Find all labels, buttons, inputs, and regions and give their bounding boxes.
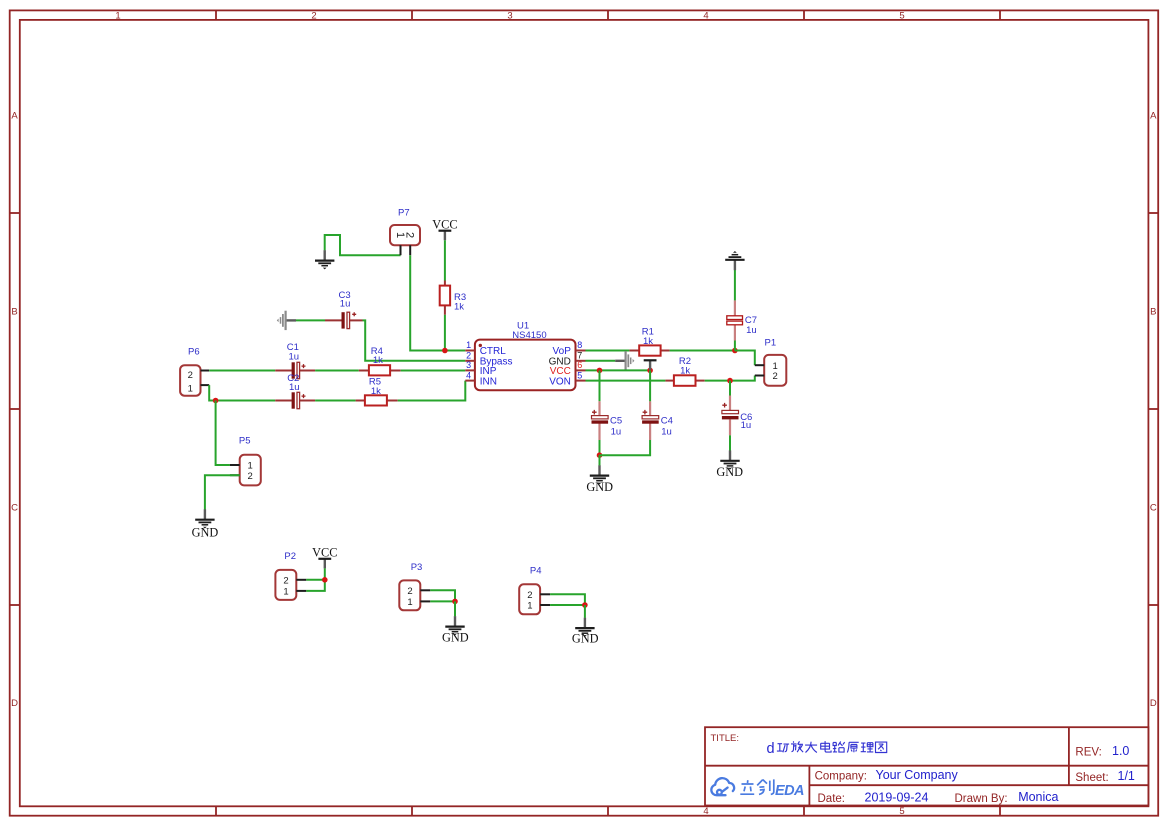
svg-text:5: 5 xyxy=(899,10,904,21)
svg-text:1k: 1k xyxy=(643,336,653,347)
svg-text:1u: 1u xyxy=(746,325,757,336)
capacitor C3 xyxy=(325,290,363,329)
wire U1 GND pin to ground flag xyxy=(586,360,616,362)
capacitor C2 xyxy=(275,373,315,409)
wire P3 pin2 to pin1 node xyxy=(430,590,455,601)
svg-text:1k: 1k xyxy=(373,355,383,366)
svg-text:5: 5 xyxy=(577,370,582,380)
wire P2 pin2 xyxy=(306,579,325,581)
svg-text:4: 4 xyxy=(466,370,471,380)
svg-text:P2: P2 xyxy=(284,551,296,562)
node C5 junction xyxy=(597,368,603,374)
wire R4 to U1 INP xyxy=(401,370,466,372)
svg-text:Date:: Date: xyxy=(818,793,846,805)
resistor R2 xyxy=(665,356,704,386)
wire U1 VON to R2 xyxy=(586,380,666,382)
resistor R5 xyxy=(356,377,398,406)
svg-text:1.0: 1.0 xyxy=(1112,744,1129,758)
title block outline xyxy=(705,727,1148,805)
VCC netflag at R3 xyxy=(432,217,457,240)
wire C3 left xyxy=(296,319,325,321)
frame right row letters xyxy=(1150,111,1157,710)
svg-text:1/1: 1/1 xyxy=(1118,769,1135,783)
svg-text:Company:: Company: xyxy=(815,771,867,783)
connector P4 xyxy=(519,566,550,615)
connector P1 xyxy=(755,338,787,386)
svg-text:A: A xyxy=(1150,111,1157,122)
svg-text:5: 5 xyxy=(899,806,904,817)
wire R5 to U1 INN xyxy=(398,381,466,401)
connector P3 xyxy=(399,562,430,610)
svg-text:3: 3 xyxy=(466,360,471,370)
svg-text:2: 2 xyxy=(311,10,316,21)
原 xyxy=(847,742,858,752)
svg-text:GND: GND xyxy=(586,480,613,494)
wire R3 to CTRL node xyxy=(444,315,446,351)
U1 pin 2 Bypass xyxy=(465,360,475,362)
U1 pin 8 VoP xyxy=(576,350,586,352)
U1 pin 3 INP xyxy=(465,369,475,371)
svg-text:d: d xyxy=(767,741,775,757)
node P5 branch junction xyxy=(213,398,219,404)
U1 pin 7 GND xyxy=(576,360,586,362)
svg-text:2: 2 xyxy=(466,351,471,361)
wire R2 to P1 pin2 xyxy=(705,376,755,381)
wire node to P1 pin1 xyxy=(735,351,755,366)
svg-text:1k: 1k xyxy=(454,302,464,313)
wire junction to P5 pin1 xyxy=(216,401,230,466)
svg-text:P6: P6 xyxy=(188,347,200,358)
svg-text:7: 7 xyxy=(577,351,582,361)
svg-text:P7: P7 xyxy=(398,208,410,219)
路 xyxy=(833,743,837,752)
图 xyxy=(876,742,887,752)
svg-text:1: 1 xyxy=(407,597,412,608)
svg-text:VCC: VCC xyxy=(312,545,337,559)
resistor R1 xyxy=(629,327,669,356)
connector P5 xyxy=(230,436,261,486)
svg-text:1: 1 xyxy=(283,587,288,598)
svg-text:GND: GND xyxy=(572,631,599,645)
wire P4 node down xyxy=(584,605,586,618)
svg-text:4: 4 xyxy=(703,806,708,817)
svg-text:1u: 1u xyxy=(741,420,752,431)
wire ground node to C4 xyxy=(600,440,651,455)
svg-text:1: 1 xyxy=(527,601,532,612)
ground flag rotated right at U1 pin7 xyxy=(615,351,634,370)
wire C4 node up xyxy=(649,370,651,401)
svg-text:1k: 1k xyxy=(371,386,381,397)
wire P6 pin2 to C1 xyxy=(209,370,275,372)
node C5-C4 ground junction xyxy=(597,452,603,458)
svg-text:P5: P5 xyxy=(239,436,251,447)
wire C3 to U1 Bypass xyxy=(363,320,466,360)
wire P5 pin2 to ground xyxy=(205,475,240,509)
svg-text:1u: 1u xyxy=(289,351,300,362)
svg-text:4: 4 xyxy=(703,10,708,21)
U1 pin 5 VON xyxy=(576,380,586,382)
wire VCC to P2 pins xyxy=(306,568,325,591)
title block logo cell divider xyxy=(808,766,810,806)
svg-text:1: 1 xyxy=(466,340,471,350)
wire C5 node to ground stub xyxy=(599,455,601,465)
svg-text:C4: C4 xyxy=(661,415,673,426)
svg-text:C: C xyxy=(1150,503,1157,514)
wire U1 VoP to R1 xyxy=(586,350,630,352)
svg-text:A: A xyxy=(11,111,18,122)
wire VCC to R3 xyxy=(444,240,446,280)
svg-text:P3: P3 xyxy=(411,562,423,573)
wire P7 pin1 to ground xyxy=(325,235,401,255)
title text: d功放大电路原理图 (stroke approximation) xyxy=(767,741,887,757)
svg-text:VCC: VCC xyxy=(432,217,457,231)
svg-text:2: 2 xyxy=(283,576,288,587)
resistor R3 xyxy=(440,281,466,315)
op-amp U1 NS4150 xyxy=(465,321,585,391)
title block rev column divider xyxy=(1068,727,1070,785)
svg-text:2: 2 xyxy=(188,370,193,381)
frame top column numbers xyxy=(115,10,904,21)
svg-text:1u: 1u xyxy=(289,382,300,393)
frame top column ticks xyxy=(216,10,1000,20)
svg-text:P1: P1 xyxy=(765,338,777,349)
wire C7 to top ground xyxy=(734,270,736,300)
node P2 junction xyxy=(322,577,328,583)
svg-text:D: D xyxy=(1150,698,1157,709)
功 xyxy=(777,744,783,751)
U1 pin 4 INN xyxy=(465,380,475,382)
connector P6 xyxy=(180,347,209,396)
node P4 junction xyxy=(582,602,588,608)
svg-text:B: B xyxy=(1150,307,1156,318)
svg-text:1u: 1u xyxy=(611,427,622,438)
svg-text:2: 2 xyxy=(407,586,412,597)
wire P3 node down xyxy=(454,601,456,616)
frame left row ticks xyxy=(10,213,20,605)
capacitor C5 xyxy=(592,401,623,440)
title block row divider 1 xyxy=(705,765,1148,767)
svg-text:P4: P4 xyxy=(530,566,542,577)
理 xyxy=(861,743,866,752)
wire P7 pin2 to U1 CTRL xyxy=(410,255,465,350)
U1 pin 1 CTRL xyxy=(465,350,475,352)
svg-text:C5: C5 xyxy=(610,415,622,426)
node C4 junction xyxy=(647,368,653,374)
svg-text:3: 3 xyxy=(507,10,512,21)
svg-text:1u: 1u xyxy=(661,427,672,438)
frame right row ticks xyxy=(1148,213,1158,605)
svg-text:NS4150: NS4150 xyxy=(512,330,546,341)
title block row divider 2 xyxy=(809,784,1148,786)
ground below P4 xyxy=(575,618,594,637)
svg-text:2: 2 xyxy=(248,471,253,482)
svg-text:INN: INN xyxy=(480,376,497,387)
svg-text:Drawn By:: Drawn By: xyxy=(955,793,1008,805)
svg-text:Your Company: Your Company xyxy=(876,768,959,782)
ground inverted above C7 xyxy=(725,251,744,270)
wire C7 node up xyxy=(734,341,736,351)
VCC netflag at P2 xyxy=(312,545,337,568)
svg-text:2019-09-24: 2019-09-24 xyxy=(865,790,929,804)
svg-text:Monica: Monica xyxy=(1018,790,1058,804)
电 xyxy=(821,741,831,752)
capacitor C7 xyxy=(727,300,757,340)
大 xyxy=(805,742,817,753)
svg-text:TITLE:: TITLE: xyxy=(711,733,740,744)
wire C1 to R4 xyxy=(315,370,359,372)
logo text 立创 (stroke approximation) xyxy=(740,779,774,794)
ground below C6 xyxy=(720,450,739,469)
wire C2 to R5 xyxy=(315,400,356,402)
wire C6 to ground xyxy=(729,435,731,450)
ground below P5 xyxy=(195,509,214,528)
svg-text:2: 2 xyxy=(404,232,416,238)
power bar flag at C4 node xyxy=(644,360,657,370)
svg-text:B: B xyxy=(11,307,17,318)
ground below P3 xyxy=(445,616,464,635)
frame left row letters xyxy=(11,111,18,710)
wire U1 VCC pin to C4 node xyxy=(586,369,651,371)
svg-text:C: C xyxy=(11,503,18,514)
node CTRL junction xyxy=(442,348,448,354)
wire P4 pin2 to pin1 node xyxy=(550,594,585,605)
svg-text:EDA: EDA xyxy=(775,783,804,799)
node P3 junction xyxy=(452,599,458,605)
U1 pin 6 VCC xyxy=(576,369,586,371)
svg-text:GND: GND xyxy=(192,526,219,540)
ground below C5 xyxy=(590,465,609,484)
ground near P7 xyxy=(315,250,334,269)
wire C5 to ground node xyxy=(599,440,601,455)
wire R1 to C7 node xyxy=(670,350,735,352)
svg-text:6: 6 xyxy=(577,360,582,370)
wire node to C5 xyxy=(599,370,601,401)
svg-text:REV:: REV: xyxy=(1075,746,1101,758)
logo cloud icon xyxy=(711,778,734,795)
svg-text:D: D xyxy=(11,698,18,709)
capacitor C4 xyxy=(642,401,673,440)
svg-text:VON: VON xyxy=(549,376,571,387)
svg-text:1u: 1u xyxy=(340,298,351,309)
resistor R4 xyxy=(359,346,401,376)
svg-text:2: 2 xyxy=(773,371,778,382)
connector P7 xyxy=(390,208,420,256)
svg-text:1k: 1k xyxy=(680,365,690,376)
ground flag rotated left of C3 xyxy=(277,311,296,330)
node VoP-C7 junction xyxy=(732,348,738,354)
svg-text:Sheet:: Sheet: xyxy=(1075,772,1108,784)
svg-text:8: 8 xyxy=(577,340,582,350)
wire P6 pin1 to C2 xyxy=(209,385,275,400)
frame bottom column numbers xyxy=(703,806,904,817)
放 xyxy=(791,741,797,751)
svg-text:1: 1 xyxy=(188,384,193,395)
frame bottom column ticks xyxy=(216,806,1000,815)
capacitor C6 xyxy=(722,396,752,436)
svg-text:GND: GND xyxy=(716,465,743,479)
capacitor C1 xyxy=(275,342,315,379)
svg-text:2: 2 xyxy=(527,590,532,601)
node C6 junction xyxy=(727,378,733,384)
connector P2 xyxy=(275,551,306,600)
svg-text:GND: GND xyxy=(442,630,469,644)
wire C6 node down xyxy=(729,381,731,396)
svg-text:1: 1 xyxy=(115,10,120,21)
